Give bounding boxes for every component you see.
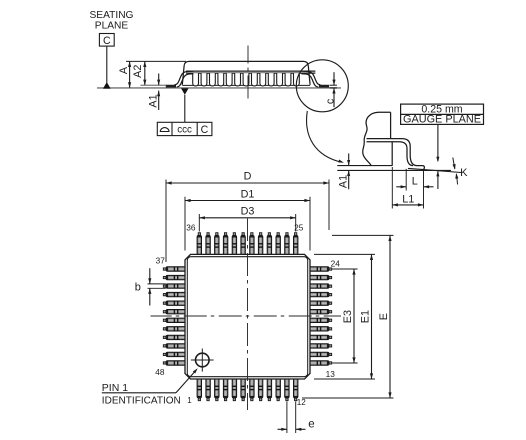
svg-text:b: b (135, 282, 141, 294)
svg-text:ccc: ccc (177, 125, 192, 136)
dimension D (166, 171, 329, 185)
package body (top view) (185, 254, 310, 379)
svg-text:L: L (412, 175, 418, 187)
svg-text:E: E (378, 313, 390, 320)
dimension A2 (132, 61, 146, 85)
detail circle (296, 60, 348, 112)
pin number 13 (326, 369, 336, 379)
centerline horizontal (top view) (151, 315, 342, 317)
gauge plane leader (436, 124, 439, 189)
svg-text:c: c (324, 98, 336, 104)
svg-text:L1: L1 (402, 193, 414, 205)
ccc datum triangle (181, 88, 189, 95)
datum C triangle (103, 82, 111, 89)
dimension b (135, 268, 152, 305)
left lead (side view) (166, 71, 194, 87)
svg-text:1: 1 (187, 396, 191, 405)
seating plane line (side view) (97, 87, 341, 89)
bottom pins 1-12 (197, 379, 298, 401)
left pins 37-48 (163, 267, 185, 365)
svg-text:D3: D3 (241, 206, 255, 218)
svg-text:36: 36 (186, 222, 196, 232)
centerline (side view) (247, 46, 249, 101)
svg-text:e: e (308, 418, 314, 430)
svg-text:25: 25 (294, 222, 304, 232)
ccc feature control frame (157, 122, 212, 136)
gauge plane box (401, 103, 484, 125)
datum C leader line (106, 46, 108, 83)
extension lines e (287, 402, 296, 434)
extension lines D1 (185, 197, 310, 251)
package body section (detail) (363, 112, 393, 166)
svg-text:24: 24 (331, 258, 341, 268)
centerline vertical (top view) (247, 219, 249, 411)
pin 1 identification leader (102, 368, 198, 393)
pin 1 identification label (102, 382, 181, 407)
extension lines D (166, 180, 329, 263)
dimension c (324, 72, 336, 107)
svg-text:PLANE: PLANE (95, 20, 129, 31)
pin number 36 (186, 222, 196, 232)
pin number 48 (155, 367, 165, 377)
extension lines E1 (314, 254, 375, 379)
ccc leader line (184, 95, 186, 123)
pin number 37 (156, 256, 166, 266)
dimension L (396, 175, 433, 188)
extension line A/A2 top (126, 60, 186, 62)
svg-text:A1: A1 (148, 94, 160, 107)
right pins 24-13 (310, 267, 332, 365)
extension line A2 bottom (141, 84, 168, 86)
extension line L (bend) (405, 169, 407, 191)
extension line lead tip (423, 170, 425, 208)
extension line L1 (body) (391, 167, 393, 209)
pin number 25 (294, 222, 304, 232)
svg-text:A1: A1 (338, 175, 350, 188)
top pins 36-25 (197, 233, 298, 255)
svg-text:E1: E1 (359, 310, 371, 323)
svg-text:37: 37 (156, 256, 166, 266)
c dimension ticks (330, 85, 337, 88)
svg-text:IDENTIFICATION: IDENTIFICATION (102, 395, 181, 407)
dimension K (453, 158, 469, 185)
svg-text:A: A (118, 66, 130, 74)
dimension E3 (342, 269, 356, 363)
dimension E (378, 235, 392, 398)
extension lines E3 (332, 269, 358, 363)
pin number 1 (187, 396, 191, 405)
far-side leads comb (side view) (193, 73, 300, 86)
pin number 24 (331, 258, 341, 268)
svg-text:D: D (244, 171, 252, 183)
svg-text:13: 13 (326, 369, 336, 379)
extension lines b (148, 284, 166, 288)
extension lines E (302, 235, 394, 398)
svg-text:D1: D1 (241, 188, 255, 200)
svg-text:GAUGE PLANE: GAUGE PLANE (403, 114, 481, 126)
package body cap (side view) (182, 61, 310, 84)
detail leader arc (307, 111, 344, 163)
dimension E1 (359, 254, 373, 379)
svg-text:C: C (201, 124, 209, 136)
lead (detail view) (367, 139, 425, 170)
dimension D1 (185, 188, 310, 202)
dimension D3 (199, 206, 295, 220)
svg-text:SEATING: SEATING (90, 10, 134, 21)
dimension e (278, 418, 315, 431)
seating plane line (detail) (337, 169, 451, 171)
svg-text:K: K (460, 167, 468, 179)
pin number 12 (297, 398, 307, 407)
svg-text:E3: E3 (342, 310, 354, 323)
datum C box (99, 34, 114, 47)
dimension L1 (392, 193, 423, 206)
svg-text:C: C (103, 35, 111, 47)
lead shoulder lines (side view) (186, 71, 315, 73)
seating plane text (90, 10, 134, 32)
dimension A1 (side view) (148, 74, 161, 111)
lead foot bottom / K line (408, 168, 461, 172)
extension lines D3 (199, 214, 295, 232)
svg-text:48: 48 (155, 367, 165, 377)
svg-text:12: 12 (297, 398, 307, 407)
pin 1 identification mark (191, 349, 214, 372)
body bottom edge (side view) (182, 84, 310, 86)
package bottom line (detail) (337, 165, 392, 167)
dimension A1 (detail) (338, 153, 351, 189)
right lead (side view) (301, 71, 329, 87)
svg-text:A2: A2 (132, 65, 144, 78)
dimension A (118, 61, 131, 88)
